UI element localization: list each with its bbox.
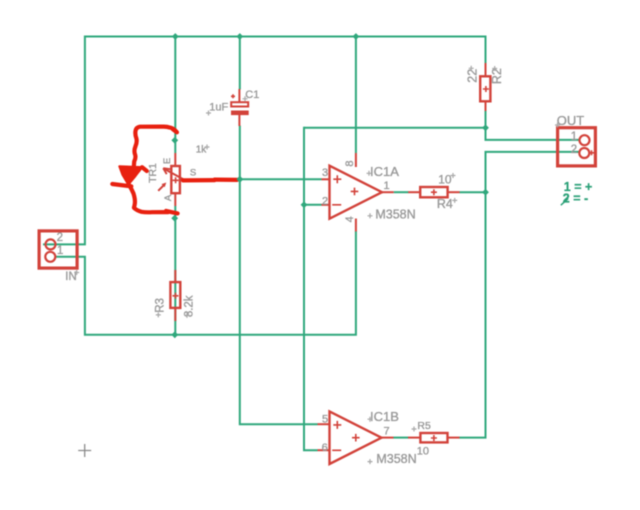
svg-text:OUT: OUT — [557, 113, 585, 128]
svg-text:3: 3 — [322, 167, 328, 179]
freehand scribble diode loop — [112, 127, 237, 214]
svg-text:1uF: 1uF — [209, 101, 228, 113]
svg-text:2 = -: 2 = - — [563, 192, 588, 206]
svg-text:A: A — [163, 194, 174, 201]
svg-text:E: E — [162, 158, 173, 164]
junction R3 bottom — [171, 331, 178, 338]
wire feedback vertical to IC1B pin6 — [304, 127, 318, 450]
svg-text:IC1B: IC1B — [370, 409, 399, 424]
svg-text:1: 1 — [571, 131, 577, 143]
wire OUT pin2 down to R5 — [459, 152, 578, 438]
svg-text:22: 22 — [465, 69, 479, 83]
wire feedback horizontal — [304, 127, 486, 129]
op-amp IC1B — [318, 411, 394, 464]
origin cross marker — [78, 444, 91, 457]
svg-text:10: 10 — [417, 446, 429, 458]
svg-text:R2: R2 — [490, 68, 504, 84]
svg-text:IC1A: IC1A — [370, 164, 399, 179]
svg-text:8.2k: 8.2k — [183, 295, 195, 317]
wire C1 bottom to IC1B pin5 — [240, 126, 318, 425]
svg-text:2: 2 — [57, 232, 63, 244]
wire IC1B output to R5 — [394, 437, 409, 439]
wire top rail — [85, 36, 486, 38]
wire TR1 top — [174, 37, 176, 154]
junction top rail x=175 — [172, 33, 179, 40]
svg-text:R4: R4 — [437, 197, 453, 211]
junction wiper S node (over scribble) — [236, 176, 243, 183]
wire R2 bottom to OUT pin1 — [486, 111, 580, 140]
wire IC1A pin3 from S junction — [240, 178, 322, 180]
resistor R3 — [170, 270, 180, 321]
svg-text:6: 6 — [322, 442, 328, 454]
wire C1 top — [239, 37, 241, 90]
connector OUT — [558, 128, 596, 166]
resistor R5 — [408, 433, 460, 442]
junction below R2 — [482, 124, 489, 131]
wire IC1A pin2 — [304, 204, 322, 206]
junction R4 output node — [482, 189, 489, 196]
svg-text:2: 2 — [322, 195, 328, 207]
svg-text:4: 4 — [344, 216, 356, 222]
wire R4 to feedback node — [460, 191, 486, 193]
resistor R4 — [408, 187, 459, 197]
svg-text:M358N: M358N — [375, 207, 415, 221]
wire IN pin1 to bottom rail — [55, 231, 356, 335]
svg-text:R3: R3 — [155, 298, 167, 313]
svg-text:TR1: TR1 — [147, 163, 159, 183]
junction IC1A pin2 node — [301, 201, 308, 208]
svg-text:5: 5 — [322, 414, 328, 426]
svg-text:1k: 1k — [196, 145, 208, 156]
junction TR1 top — [171, 137, 178, 144]
wire left vertical to IN pin2 — [43, 36, 85, 245]
svg-text:M358N: M358N — [376, 452, 416, 466]
svg-text:1: 1 — [383, 180, 389, 192]
trimmer TR1 — [158, 153, 239, 206]
connector IN — [39, 231, 77, 268]
svg-text:1: 1 — [57, 245, 63, 257]
junction top rail x=357 — [353, 33, 360, 40]
svg-text:10: 10 — [438, 173, 452, 187]
wire IC1A pin8 power — [355, 37, 357, 154]
capacitor C1 — [231, 89, 249, 126]
svg-text:2: 2 — [571, 144, 577, 156]
junction TR1 bottom — [171, 215, 178, 222]
svg-text:7: 7 — [383, 426, 389, 438]
op-amp IC1A — [322, 153, 394, 232]
svg-text:R5: R5 — [417, 420, 431, 432]
junction top rail x=240 — [236, 33, 243, 40]
svg-text:S: S — [190, 168, 196, 179]
wire R2 top — [485, 36, 487, 64]
svg-text:8: 8 — [344, 160, 356, 166]
junction wiper S node — [236, 176, 243, 183]
resistor R2 — [480, 63, 490, 111]
wire IC1A output to R4 — [394, 191, 409, 193]
wire TR1 bottom to R3 and bottom rail — [174, 206, 176, 335]
